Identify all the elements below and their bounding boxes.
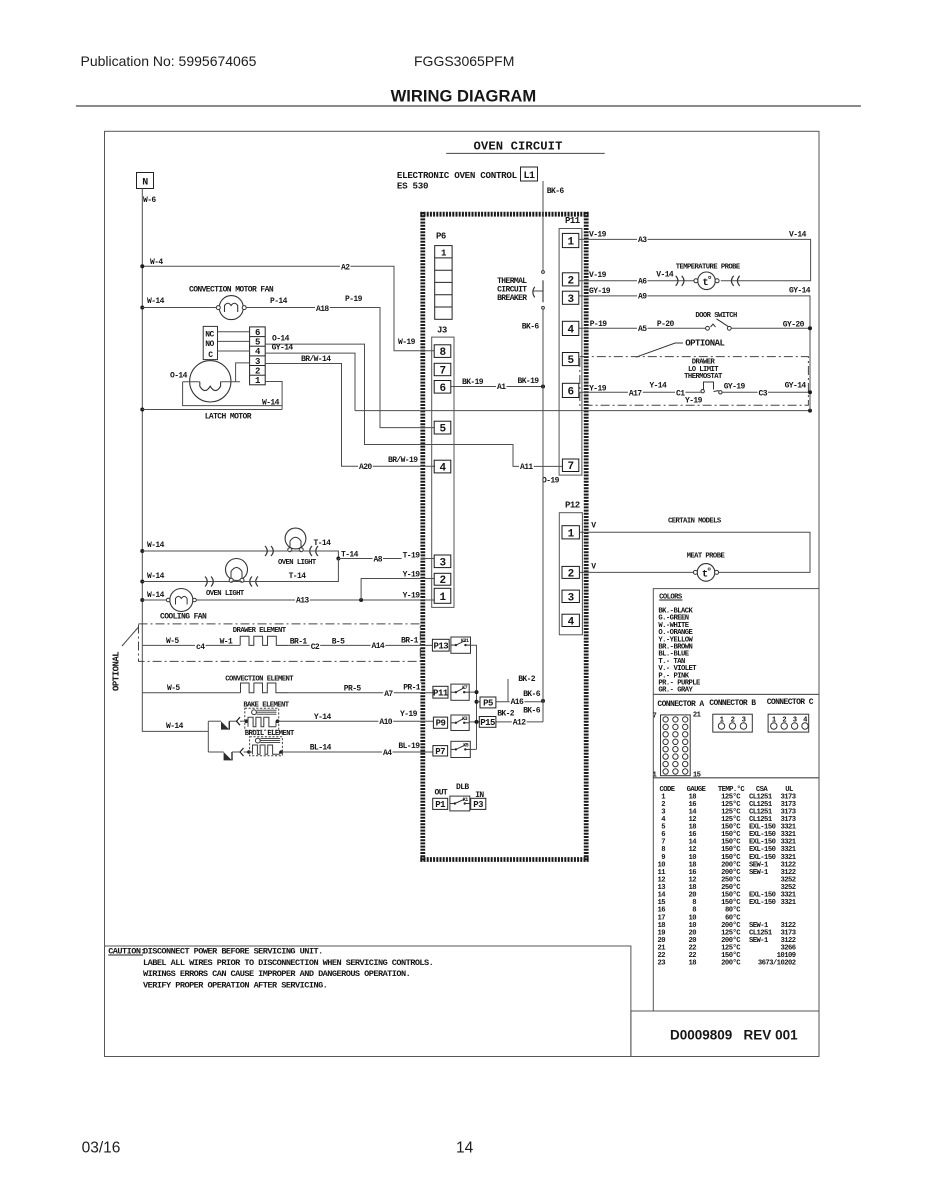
svg-text:GY-19: GY-19 <box>724 382 746 391</box>
wire W-6 neutral vertical from N <box>142 189 208 732</box>
svg-text:5: 5 <box>568 355 575 367</box>
svg-text:A9: A9 <box>638 293 647 302</box>
caution note box <box>105 946 631 1057</box>
svg-text:14: 14 <box>456 1140 474 1157</box>
svg-text:3673/10202: 3673/10202 <box>758 960 796 968</box>
svg-text:BR-1: BR-1 <box>290 638 308 647</box>
svg-text:K3: K3 <box>462 716 468 722</box>
svg-text:7: 7 <box>653 713 657 721</box>
svg-text:SEW-1: SEW-1 <box>749 937 769 945</box>
broil element <box>232 730 295 756</box>
svg-text:Y-19: Y-19 <box>403 592 421 601</box>
svg-text:21: 21 <box>693 711 702 719</box>
svg-text:2: 2 <box>255 367 260 377</box>
connector P15 <box>479 717 496 728</box>
svg-text:BK-19: BK-19 <box>462 378 484 387</box>
svg-text:VERIFY PROPER OPERATION AFTER: VERIFY PROPER OPERATION AFTER SERVICING. <box>143 980 327 990</box>
svg-text:A4: A4 <box>383 749 392 758</box>
colors legend entries <box>658 608 701 695</box>
svg-text:6: 6 <box>568 386 574 398</box>
connector P13 <box>432 639 449 651</box>
svg-text:ELECTRONIC OVEN CONTROL: ELECTRONIC OVEN CONTROL <box>397 170 518 181</box>
wire W-14 feed to bake and broil <box>166 721 208 752</box>
svg-text:WIRING DIAGRAM: WIRING DIAGRAM <box>391 87 537 106</box>
relay K5 <box>451 741 477 757</box>
relay K3 <box>451 715 469 731</box>
svg-text:A2: A2 <box>341 263 350 272</box>
diagram outer border <box>105 131 820 1056</box>
svg-text:C1: C1 <box>676 389 685 398</box>
svg-text:BK-6: BK-6 <box>547 187 565 196</box>
connector P7 <box>433 746 448 757</box>
page title WIRING DIAGRAM <box>76 87 861 107</box>
svg-text:3: 3 <box>793 717 797 725</box>
connector B <box>709 699 756 732</box>
svg-text:W-14: W-14 <box>147 572 165 581</box>
wire Y-19 branch to J3 pin2 <box>361 571 434 601</box>
svg-text:P-19: P-19 <box>590 320 608 329</box>
drawer element <box>142 627 432 652</box>
wire T-14 A8 T-19 to J3 pin3 <box>303 550 434 565</box>
svg-text:2: 2 <box>568 275 574 287</box>
drawer lo limit thermostat <box>579 382 812 406</box>
svg-text:O-14: O-14 <box>170 372 188 381</box>
svg-text:K7: K7 <box>462 685 468 691</box>
svg-text:6: 6 <box>255 328 260 338</box>
svg-text:P7: P7 <box>435 747 445 757</box>
temperature probe <box>579 264 741 290</box>
svg-text:OVEN LIGHT: OVEN LIGHT <box>278 559 317 567</box>
svg-text:NC: NC <box>205 331 214 340</box>
svg-text:THERMOSTAT: THERMOSTAT <box>684 373 723 381</box>
svg-text:BR-1: BR-1 <box>401 637 419 646</box>
svg-text:SEW-1: SEW-1 <box>749 869 769 877</box>
wire NO to latch pin 5 <box>218 340 250 342</box>
svg-text:P-19: P-19 <box>345 295 363 304</box>
svg-text:K21: K21 <box>461 638 469 644</box>
svg-text:TEMPERATURE PROBE: TEMPERATURE PROBE <box>676 264 741 272</box>
svg-text:A5: A5 <box>638 325 647 334</box>
svg-text:GY-20: GY-20 <box>783 321 805 330</box>
svg-text:P3: P3 <box>473 800 483 810</box>
svg-text:BK-19: BK-19 <box>518 377 540 386</box>
svg-text:OPTIONAL: OPTIONAL <box>685 339 724 349</box>
svg-text:A17: A17 <box>629 389 642 398</box>
wire BR/W-14 A20 BR/W-19 to J3 pin4 <box>265 355 435 472</box>
svg-text:LABEL ALL WIRES PRIOR TO DISCO: LABEL ALL WIRES PRIOR TO DISCONNECTION W… <box>143 958 433 968</box>
svg-text:CONNECTOR B: CONNECTOR B <box>709 699 756 708</box>
svg-text:W-4: W-4 <box>150 258 163 267</box>
svg-text:18: 18 <box>688 960 696 968</box>
wire V-19 A3 V-14 from P11 pin1 <box>579 231 811 281</box>
svg-text:K5: K5 <box>463 742 469 748</box>
svg-text:BROIL ELEMENT: BROIL ELEMENT <box>245 730 295 738</box>
svg-text:BK-2: BK-2 <box>518 675 536 684</box>
svg-text:LATCH MOTOR: LATCH MOTOR <box>205 412 252 421</box>
svg-text:P9: P9 <box>436 719 446 729</box>
svg-text:O-14: O-14 <box>272 334 290 343</box>
wire GY-14 return line across board <box>355 409 812 413</box>
connector section box <box>653 694 819 777</box>
connector P11 (relay) <box>433 686 449 698</box>
svg-text:BL-14: BL-14 <box>310 744 332 753</box>
svg-text:Y-19: Y-19 <box>685 396 703 405</box>
svg-text:6: 6 <box>439 383 445 395</box>
connector P1 (DLB out) <box>433 788 448 810</box>
bake igniter <box>208 721 229 729</box>
svg-text:3: 3 <box>255 357 260 367</box>
svg-text:BK-6: BK-6 <box>523 690 541 699</box>
connector P3 (DLB in) <box>471 791 486 810</box>
svg-text:J3: J3 <box>437 326 447 336</box>
node L1 <box>521 167 538 182</box>
svg-text:W-1: W-1 <box>220 638 233 647</box>
oven light 2 <box>140 559 338 599</box>
wire relay K3 output <box>469 720 480 724</box>
wire BK-2 A16 BK-6 from P5 to BK-6 bus <box>496 675 545 707</box>
connector J3 <box>432 326 454 608</box>
svg-text:A20: A20 <box>359 463 372 472</box>
svg-text:CONNECTOR C: CONNECTOR C <box>767 698 814 707</box>
relay K1 (DLB) <box>450 783 470 811</box>
svg-text:O-19: O-19 <box>542 477 560 486</box>
svg-text:4: 4 <box>439 463 446 475</box>
wire BK-6 from L1 <box>543 181 564 271</box>
svg-text:ES 530: ES 530 <box>397 181 428 192</box>
svg-text:DLB: DLB <box>456 783 469 792</box>
svg-text:OVEN CIRCUIT: OVEN CIRCUIT <box>474 140 563 154</box>
svg-text:A16: A16 <box>511 698 524 707</box>
svg-text:B-5: B-5 <box>332 638 345 647</box>
svg-text:BK-6: BK-6 <box>522 323 540 332</box>
svg-text:Y-19: Y-19 <box>589 384 607 393</box>
svg-text:P6: P6 <box>436 232 446 242</box>
wire P-14 A18 P-19 to J3 pin5 <box>246 295 434 428</box>
svg-text:V-19: V-19 <box>589 231 607 240</box>
connector C <box>767 698 814 732</box>
svg-text:7: 7 <box>439 366 445 378</box>
svg-text:C3: C3 <box>759 389 768 398</box>
svg-text:T-14: T-14 <box>289 572 307 581</box>
wire O-14 A11 O-19 to P11 pin7 <box>265 334 562 485</box>
svg-text:Publication No: 5995674065: Publication No: 5995674065 <box>81 53 257 69</box>
svg-text:A18: A18 <box>316 305 329 314</box>
svg-text:P11: P11 <box>433 689 449 699</box>
svg-text:t: t <box>702 568 708 580</box>
svg-text:P5: P5 <box>483 698 493 708</box>
svg-text:3: 3 <box>439 557 446 569</box>
svg-text:A14: A14 <box>372 642 385 651</box>
svg-text:V-14: V-14 <box>656 271 674 280</box>
svg-text:P11: P11 <box>565 216 581 226</box>
svg-text:DOOR SWITCH: DOOR SWITCH <box>695 312 737 320</box>
bake element <box>229 702 289 731</box>
svg-text:W-14: W-14 <box>147 297 165 306</box>
svg-text:W-14: W-14 <box>262 399 280 408</box>
svg-text:GY-19: GY-19 <box>589 287 611 296</box>
svg-text:1: 1 <box>568 237 575 249</box>
svg-text:OVEN LIGHT: OVEN LIGHT <box>206 590 245 598</box>
optional drawer lo limit thermostat dash-dot box <box>580 357 809 406</box>
svg-text:GY-14: GY-14 <box>785 382 807 391</box>
svg-text:COOLING FAN: COOLING FAN <box>160 613 207 622</box>
svg-text:N: N <box>142 178 148 189</box>
title OVEN CIRCUIT <box>446 140 605 154</box>
door switch <box>579 312 812 334</box>
svg-text:T-14: T-14 <box>314 539 332 548</box>
svg-text:W-19: W-19 <box>398 338 416 347</box>
wire W-14 neutral return (left) <box>140 408 282 412</box>
svg-text:D0009809 REV 001: D0009809 REV 001 <box>670 1028 798 1043</box>
latch motor <box>170 360 252 422</box>
svg-text:2: 2 <box>731 717 735 725</box>
wire C to latch pin 4 <box>218 350 250 352</box>
svg-text:BK-6: BK-6 <box>523 707 541 716</box>
electronic oven control board outline (hatched) <box>420 212 588 862</box>
svg-text:BR/W-14: BR/W-14 <box>301 355 331 364</box>
wire A13 Y-19 to J3 pin1 <box>196 592 434 606</box>
svg-text:P-14: P-14 <box>270 297 288 306</box>
oven light 1 <box>140 528 331 567</box>
wire relay K7 output <box>469 690 478 694</box>
svg-text:Y-14: Y-14 <box>649 382 667 391</box>
meat probe <box>579 553 725 582</box>
connector P9 <box>433 717 447 729</box>
svg-text:GY-14: GY-14 <box>272 344 294 353</box>
colors legend box <box>653 589 819 695</box>
svg-text:7: 7 <box>568 461 574 473</box>
document number box <box>631 1011 819 1057</box>
svg-text:FGGS3065PFM: FGGS3065PFM <box>414 53 514 69</box>
svg-text:W-14: W-14 <box>166 722 184 731</box>
connector P11 <box>559 216 582 475</box>
latch switch contact block NC NO C <box>203 326 217 360</box>
svg-text:A8: A8 <box>374 556 383 565</box>
svg-text:EXL-150: EXL-150 <box>749 899 776 907</box>
svg-text:200°C: 200°C <box>721 959 741 968</box>
wire relay K21 output to bus <box>471 645 477 749</box>
svg-text:BK-2: BK-2 <box>497 710 515 719</box>
svg-text:T-14: T-14 <box>341 550 359 559</box>
connector P5 <box>475 697 496 708</box>
svg-text:A6: A6 <box>638 278 647 287</box>
svg-text:5: 5 <box>255 338 260 348</box>
svg-text:BR/W-19: BR/W-19 <box>388 456 418 465</box>
svg-text:1: 1 <box>568 528 575 540</box>
svg-text:t: t <box>702 277 708 289</box>
svg-text:C2: C2 <box>311 643 320 652</box>
svg-text:2: 2 <box>782 717 786 725</box>
svg-text:MEAT PROBE: MEAT PROBE <box>687 553 726 561</box>
svg-text:W-5: W-5 <box>167 684 180 693</box>
svg-text:23: 23 <box>657 960 665 968</box>
wire Y-14 A10 Y-19 to P9 <box>278 710 434 727</box>
svg-text:GR.- GRAY: GR.- GRAY <box>658 687 693 695</box>
svg-text:c4: c4 <box>196 643 205 652</box>
page footer page number <box>456 1140 474 1157</box>
latch motor connector pins 6-1 <box>250 327 266 386</box>
svg-text:A12: A12 <box>513 719 526 728</box>
wire BL-14 A4 BL-19 to P7 <box>281 742 433 758</box>
svg-text:CERTAIN MODELS: CERTAIN MODELS <box>668 518 722 526</box>
electronic oven control ES 530 label <box>397 170 518 192</box>
broil igniter <box>208 752 232 760</box>
cooling fan <box>140 589 207 622</box>
svg-text:CONVECTION ELEMENT: CONVECTION ELEMENT <box>225 676 294 684</box>
svg-text:NO: NO <box>205 340 214 349</box>
svg-text:3: 3 <box>568 294 575 306</box>
connector P12 <box>559 501 582 635</box>
wire BK-6 bus vertical <box>522 309 543 722</box>
svg-text:GY-14: GY-14 <box>789 287 811 296</box>
svg-text:CONVECTION MOTOR FAN: CONVECTION MOTOR FAN <box>189 286 274 295</box>
svg-text:PR-1: PR-1 <box>403 684 421 693</box>
svg-text:2: 2 <box>568 568 574 580</box>
svg-text:5: 5 <box>439 424 446 436</box>
svg-text:DRAWER ELEMENT: DRAWER ELEMENT <box>233 627 287 635</box>
optional drawer element dash-dot box <box>112 624 421 691</box>
svg-text:Y-14: Y-14 <box>314 713 332 722</box>
svg-text:A3: A3 <box>638 236 647 245</box>
svg-text:03/16: 03/16 <box>82 1140 121 1157</box>
svg-text:L1: L1 <box>523 171 535 182</box>
svg-text:Y-19: Y-19 <box>403 571 421 580</box>
node N <box>137 173 154 189</box>
svg-text:2: 2 <box>439 575 445 587</box>
relay K7 <box>451 684 469 700</box>
svg-text:W-6: W-6 <box>143 196 156 205</box>
svg-text:4: 4 <box>568 616 575 628</box>
svg-text:K1: K1 <box>463 797 469 803</box>
svg-text:A11: A11 <box>520 463 533 472</box>
svg-text:3: 3 <box>568 592 575 604</box>
convection element <box>142 676 433 699</box>
svg-text:3: 3 <box>742 717 746 725</box>
page header publication number <box>81 53 257 69</box>
svg-text:V-14: V-14 <box>789 231 807 240</box>
svg-text:Y-19: Y-19 <box>400 710 418 719</box>
svg-text:1: 1 <box>439 592 446 604</box>
wire GY-14 from latch pin4 to return line <box>265 344 355 411</box>
svg-text:W-14: W-14 <box>147 591 165 600</box>
svg-text:BL-19: BL-19 <box>398 742 420 751</box>
wire gauge table <box>653 778 819 1011</box>
svg-text:P-20: P-20 <box>657 320 675 329</box>
connector A <box>653 700 705 780</box>
svg-text:PR-5: PR-5 <box>344 685 362 694</box>
svg-text:P12: P12 <box>565 501 580 511</box>
svg-text:W-14: W-14 <box>147 541 165 550</box>
svg-text:8: 8 <box>439 347 446 359</box>
svg-text:3321: 3321 <box>780 899 796 907</box>
svg-text:4: 4 <box>568 324 575 336</box>
wire NC to latch pin 6 <box>218 331 250 333</box>
svg-text:W-5: W-5 <box>166 637 179 646</box>
svg-text:A7: A7 <box>384 690 393 699</box>
svg-text:CONNECTOR A: CONNECTOR A <box>657 700 704 709</box>
latch motor loop wire to pin 1 <box>183 363 283 410</box>
page footer date <box>82 1140 121 1157</box>
wire BK-2 A12 BK-6 from P15 <box>496 707 543 728</box>
wire V from P12 pin1 (certain models) <box>579 518 810 573</box>
svg-text:OUT: OUT <box>435 788 448 797</box>
svg-text:P13: P13 <box>433 642 448 652</box>
svg-text:P15: P15 <box>480 718 495 728</box>
wire W-4 A2 W-19 to J3 pin8 <box>140 258 434 351</box>
svg-text:A13: A13 <box>296 597 309 606</box>
wire GY-19 A9 GY-14 from P11 pin3 <box>579 287 811 411</box>
thermal circuit breaker <box>497 271 544 310</box>
svg-text:A1: A1 <box>497 383 506 392</box>
page header model number <box>414 53 514 69</box>
svg-text:OPTIONAL: OPTIONAL <box>112 652 122 691</box>
convection motor fan <box>140 286 287 320</box>
optional label for drawer thermostat <box>636 339 725 358</box>
svg-text:V-19: V-19 <box>589 271 607 280</box>
connector P6 <box>435 232 452 320</box>
svg-text:DISCONNECT POWER BEFORE SERVIC: DISCONNECT POWER BEFORE SERVICING UNIT. <box>143 947 323 957</box>
relay K21 <box>451 637 471 653</box>
svg-text:A10: A10 <box>379 718 392 727</box>
svg-text:BREAKER: BREAKER <box>497 294 527 303</box>
svg-text:P1: P1 <box>435 800 446 810</box>
wire BK-19 A1 from J3 pin6 <box>451 377 545 392</box>
svg-text:WIRINGS ERRORS CAN CAUSE IMPRO: WIRINGS ERRORS CAN CAUSE IMPROPER AND DA… <box>143 969 410 979</box>
svg-text:T-19: T-19 <box>403 552 421 561</box>
svg-text:15: 15 <box>693 772 701 780</box>
svg-text:IN: IN <box>475 791 484 800</box>
svg-text:BAKE ELEMENT: BAKE ELEMENT <box>243 702 289 710</box>
